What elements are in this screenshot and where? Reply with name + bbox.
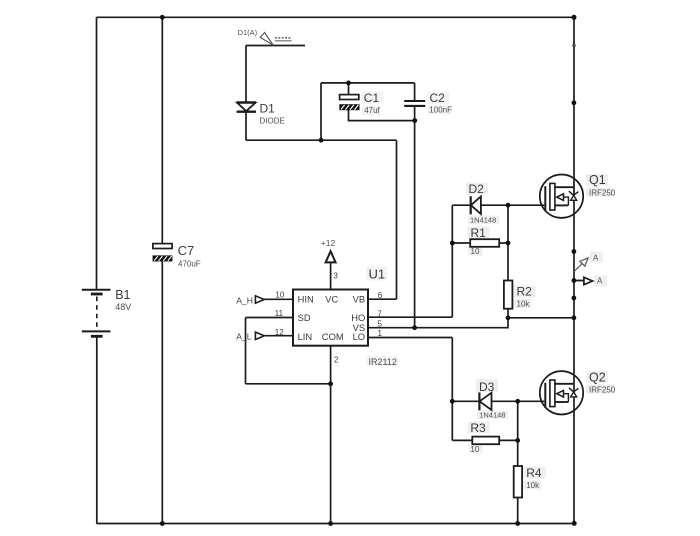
- wire Q2 gate wire: [492, 400, 545, 402]
- wire pin3 VC stub: [330, 262, 332, 289]
- wire D3 cathode lead: [452, 400, 479, 402]
- svg-text:D1: D1: [260, 102, 276, 116]
- wire COM ground vertical: [330, 384, 332, 524]
- wire Q1 gate wire: [481, 204, 544, 206]
- svg-text:2: 2: [334, 355, 339, 364]
- svg-text:11: 11: [275, 309, 284, 318]
- wire SD vertical: [245, 318, 247, 384]
- node C1/C2 bottom junction: [412, 118, 417, 123]
- svg-text:VB: VB: [353, 294, 366, 305]
- svg-text:R2: R2: [517, 285, 533, 299]
- wire R4 bottom lead: [517, 498, 519, 524]
- wire VS pin5: [368, 318, 574, 328]
- op-amp U1 IR2112 box: [293, 290, 368, 346]
- node VS / source junction: [572, 315, 577, 320]
- node top rail / C7 junction: [160, 15, 165, 20]
- svg-text:100nF: 100nF: [429, 106, 452, 115]
- node probe dot 2: [572, 278, 577, 283]
- svg-text:C1: C1: [364, 91, 380, 105]
- svg-text:LIN: LIN: [298, 331, 313, 342]
- node R1 left junction: [450, 241, 455, 246]
- wire gate node vertical Q1: [507, 205, 509, 280]
- node right rail dot: [572, 100, 577, 105]
- svg-text:LO: LO: [353, 331, 366, 342]
- wire C7 branch upper: [161, 17, 163, 243]
- node VB net junction: [319, 138, 324, 143]
- capacitor C2: [404, 101, 425, 106]
- svg-text:SD: SD: [298, 312, 311, 323]
- svg-text:C7: C7: [178, 243, 195, 258]
- svg-text:5: 5: [378, 319, 383, 328]
- svg-text:47uf: 47uf: [364, 106, 380, 115]
- svg-text:Q1: Q1: [589, 173, 606, 187]
- wire right rail (drain-source chain): [573, 17, 575, 523]
- svg-text:VC: VC: [325, 294, 338, 305]
- svg-text:DIODE: DIODE: [260, 117, 285, 126]
- wire VB net left vertical: [320, 83, 322, 140]
- svg-text:3: 3: [333, 271, 338, 280]
- wire gate node vertical Q2: [517, 401, 519, 466]
- resistor R3: [472, 437, 499, 445]
- node Q1 gate / D2 junction: [506, 203, 511, 208]
- wire R1 left lead: [452, 242, 470, 244]
- wire HO pin7: [368, 316, 452, 318]
- svg-text:B1: B1: [115, 288, 130, 302]
- svg-text:COM: COM: [322, 331, 344, 342]
- svg-text:A_L: A_L: [236, 332, 252, 342]
- wire D1(A) flag stub: [246, 45, 305, 47]
- svg-text:10: 10: [470, 445, 479, 454]
- svg-text:R3: R3: [470, 421, 486, 435]
- node bottom right corner: [572, 521, 577, 526]
- transistor Q1 IRF250: [540, 175, 583, 218]
- node A probe diagonal: [574, 258, 588, 272]
- node small tick on right rail: [572, 44, 575, 47]
- capacitor C7: [153, 244, 172, 262]
- wire VB net top: [321, 82, 415, 84]
- svg-text:10: 10: [275, 290, 284, 299]
- diode D1: [237, 103, 256, 112]
- svg-text:470uF: 470uF: [178, 260, 201, 269]
- svg-text:A: A: [593, 254, 599, 263]
- wire VB net right vertical to pin6: [396, 140, 398, 299]
- svg-text:48V: 48V: [115, 302, 131, 312]
- svg-text:U1: U1: [369, 267, 386, 282]
- wire C2 top lead: [414, 83, 416, 100]
- wire LO vertical dropper: [451, 338, 453, 441]
- node probe dot 1: [572, 249, 577, 254]
- wire D1 anode lead: [245, 46, 247, 103]
- wire C1 bottom stub to C2: [349, 110, 415, 121]
- node VS / C2 junction: [412, 325, 417, 330]
- wire R3 right lead: [499, 439, 518, 441]
- svg-text:Q2: Q2: [589, 370, 606, 384]
- resistor R1: [470, 239, 499, 247]
- svg-text:+12: +12: [321, 238, 336, 248]
- capacitor C1: [340, 95, 360, 110]
- svg-text:R1: R1: [471, 226, 487, 240]
- svg-text:IR2112: IR2112: [369, 357, 397, 367]
- svg-text:IRF250: IRF250: [589, 386, 616, 395]
- node D3 left junction: [450, 399, 455, 404]
- wire R2 bottom lead: [507, 309, 509, 318]
- diode D2: [471, 196, 481, 214]
- resistor R4: [514, 466, 522, 498]
- svg-text:A_H: A_H: [236, 295, 253, 305]
- wire D2 cathode lead: [452, 204, 470, 206]
- svg-text:D1(A): D1(A): [238, 28, 258, 37]
- node COM ground junction: [328, 521, 333, 526]
- wire D1 cathode lead: [245, 112, 247, 141]
- svg-text:12: 12: [275, 328, 284, 337]
- svg-text:10: 10: [471, 247, 480, 256]
- wire SD to COM ground link: [246, 383, 331, 385]
- wire top rail: [97, 16, 575, 18]
- buffer A_L: [255, 332, 264, 339]
- svg-text:7: 7: [377, 309, 382, 318]
- node R2 bottom / VS junction: [506, 315, 511, 320]
- wire pin2 COM stub: [330, 346, 332, 384]
- node probe dot 3: [572, 296, 577, 301]
- wire left rail lower: [96, 337, 98, 523]
- node R1 right junction: [506, 241, 511, 246]
- node R4 ground junction: [515, 521, 520, 526]
- svg-text:6: 6: [378, 291, 383, 300]
- svg-text:1N4148: 1N4148: [470, 216, 496, 225]
- buffer A_H: [255, 296, 264, 303]
- wire C7 branch lower: [161, 261, 163, 523]
- svg-text:D2: D2: [469, 182, 485, 196]
- wire LO pin1: [368, 337, 452, 339]
- node COM/SD junction: [328, 381, 333, 386]
- resistor R2: [504, 281, 513, 309]
- svg-text:D3: D3: [479, 380, 495, 394]
- wire SD pin11: [246, 317, 294, 319]
- node top rail / right rail corner: [572, 15, 577, 20]
- wire R3 left lead: [452, 439, 472, 441]
- svg-text:HIN: HIN: [298, 294, 314, 305]
- wire pin10 HIN stub: [264, 298, 293, 300]
- wire C1 top stub: [348, 83, 350, 95]
- svg-text:10k: 10k: [517, 300, 531, 309]
- power +12 arrow: [326, 251, 336, 262]
- diode D3: [479, 392, 491, 410]
- wire C2 bottom lead down to VS: [414, 107, 416, 328]
- svg-text:1N4148: 1N4148: [479, 411, 505, 420]
- transistor Q2 IRF250: [540, 371, 583, 414]
- wire VB net horizontal: [246, 139, 397, 141]
- node D1(A) flag: [260, 33, 291, 46]
- svg-text:R4: R4: [526, 466, 542, 480]
- svg-text:1: 1: [378, 329, 383, 338]
- wire HO vertical riser: [451, 205, 453, 317]
- wire pin12 LIN stub: [264, 335, 293, 337]
- node A arrow horizontal: [574, 277, 593, 284]
- node Q2 gate junction: [515, 399, 520, 404]
- svg-text:IRF250: IRF250: [589, 188, 616, 197]
- svg-text:C2: C2: [430, 91, 446, 105]
- wire pin6 stub: [368, 298, 397, 300]
- wire R1 right lead: [499, 242, 508, 244]
- node C1 top junction: [346, 81, 351, 86]
- wire bottom rail: [97, 523, 575, 525]
- node R3 right junction: [515, 438, 520, 443]
- svg-text:A: A: [597, 277, 603, 286]
- battery B1: [82, 290, 111, 337]
- svg-text:10k: 10k: [526, 481, 540, 490]
- wire left rail upper: [96, 17, 98, 289]
- node C7 ground junction: [160, 521, 165, 526]
